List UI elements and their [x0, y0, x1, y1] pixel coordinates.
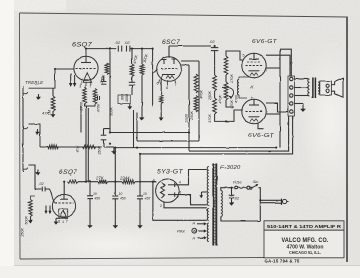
junction dot [54, 68, 56, 70]
V5 plate wire [266, 103, 288, 112]
heater arrow 3 [197, 236, 207, 239]
V2 plate bus [78, 181, 98, 183]
grid1 feed wire [226, 51, 243, 60]
cap .005-4000 unit [129, 77, 135, 96]
rail x189 [188, 65, 190, 151]
speaker cone [331, 78, 343, 97]
bus L4 [140, 116, 293, 154]
paper bottom strip [0, 266, 360, 278]
svg-text:450: 450 [95, 197, 101, 201]
V5 cathode stub [258, 124, 264, 129]
tube V6 5Y3 envelope [156, 179, 179, 202]
PT primary [221, 191, 223, 217]
rail x110 [109, 49, 111, 129]
label 10/450 b [119, 192, 126, 201]
svg-text:1500: 1500 [185, 113, 189, 122]
voice coil dot b [326, 89, 329, 92]
V1 cathode triangle [83, 73, 91, 83]
svg-text:8: 8 [166, 86, 168, 90]
PT 5V winding [207, 209, 208, 221]
V2 ground stub [54, 218, 60, 225]
junction dot [85, 48, 87, 50]
V4 plate wire [266, 55, 290, 76]
tube V2 6SQ7 envelope [52, 194, 75, 217]
switch [250, 184, 258, 189]
pi lower join [226, 100, 234, 107]
svg-text:.02: .02 [234, 197, 240, 201]
strip to OT wire 2 [295, 87, 309, 89]
tube V3 6SC7 envelope [157, 57, 182, 82]
svg-text:Pilot: Pilot [177, 228, 185, 233]
filter cap 3 [137, 196, 143, 229]
V2 plate riser [64, 182, 67, 195]
V2 plate [60, 195, 68, 199]
svg-text:10: 10 [93, 192, 97, 196]
tube V4 6V6 envelope [242, 53, 266, 77]
resistor 300K mid [140, 49, 144, 75]
svg-text:500K: 500K [25, 215, 29, 224]
V3 plate riser [168, 46, 170, 57]
resistor 470K mid [130, 49, 134, 77]
bus L3 field coil lead [115, 147, 276, 149]
V2 grid cap .02 [29, 165, 46, 191]
wire 6SC7 plate to cap [169, 45, 211, 47]
crossover hop wire [222, 87, 234, 99]
resistor 2244 [122, 180, 135, 184]
mix wire [40, 146, 102, 148]
svg-text:3: 3 [79, 84, 81, 88]
svg-text:GA-15 794 & 75: GA-15 794 & 75 [265, 258, 300, 263]
junction dot [214, 45, 216, 47]
junction dot [225, 121, 227, 123]
svg-text:H: H [193, 237, 196, 241]
junction dot [109, 132, 111, 134]
svg-text:6V6-GT: 6V6-GT [248, 133, 274, 139]
junction dot [85, 181, 87, 183]
svg-text:2244: 2244 [119, 175, 130, 180]
svg-text:.02: .02 [124, 40, 130, 45]
junction dot [139, 181, 141, 183]
filter cap 2 [112, 196, 118, 229]
tube V1 6SQ7 envelope [74, 56, 98, 80]
V3 plate2 wire [181, 64, 189, 66]
V4 heater zig [250, 73, 258, 76]
junction dot [89, 181, 91, 183]
line bypass cap .02 [229, 188, 235, 206]
svg-text:500K: 500K [110, 107, 114, 116]
svg-text:470K: 470K [97, 103, 101, 112]
pot ground [28, 217, 33, 224]
V4 screen stub [266, 67, 280, 69]
V6 plate4 wire [175, 170, 207, 185]
power cord [260, 200, 281, 202]
junction dot [152, 181, 154, 183]
V2 cathode triangle [60, 210, 66, 217]
svg-text:CHICAGO 51, ILL.: CHICAGO 51, ILL. [289, 250, 321, 255]
title block main box [264, 230, 344, 258]
svg-text:F-3020: F-3020 [221, 165, 241, 171]
svg-text:4: 4 [179, 180, 181, 184]
resistor 47K a [48, 145, 59, 149]
svg-text:.02: .02 [115, 40, 121, 45]
svg-text:H: H [193, 222, 196, 226]
ground V3 cathode [159, 113, 164, 121]
svg-text:6: 6 [157, 82, 159, 86]
V1 plate [81, 56, 91, 62]
resistor 270K pi-3 [224, 56, 228, 75]
V2 cathode box [59, 209, 68, 218]
bus 27K to 2244 [108, 181, 123, 183]
svg-text:510-14RT & 14TD AMPLIF R: 510-14RT & 14TD AMPLIF R [267, 224, 342, 229]
V3 pin stubs [159, 80, 176, 86]
B+ rail pair to V2 plate [86, 106, 88, 183]
junction dot [152, 48, 154, 50]
svg-text:6SQ7: 6SQ7 [72, 41, 92, 48]
ground tone [104, 147, 117, 155]
V2 diode arrows [44, 206, 51, 215]
cap .1 on branch [101, 76, 106, 85]
jack chain wire [22, 97, 24, 162]
V6 plate6 wire [175, 195, 207, 205]
paper smudge bottom [20, 223, 200, 267]
strip lug 5 [290, 110, 293, 113]
resistor 250K V3 [194, 96, 198, 113]
svg-text:6V6-GT: 6V6-GT [252, 39, 277, 45]
strip to OT wire 1 [295, 78, 309, 80]
V5 grid dashed [246, 111, 263, 113]
primary to fuse wire [221, 188, 234, 191]
V3 plate 1 [162, 60, 167, 65]
svg-text:250K: 250K [98, 145, 102, 155]
pot top tie [31, 196, 36, 200]
junction dot [114, 181, 116, 183]
B+ top wire to strip [280, 49, 291, 76]
junction dot [63, 181, 65, 183]
ground at J2 [35, 129, 40, 135]
resistor 250K pi-1 [213, 56, 217, 91]
svg-text:6SC7: 6SC7 [162, 39, 180, 46]
network box [118, 95, 130, 104]
junction dot [109, 143, 111, 145]
bus L2 heater [137, 140, 199, 142]
resistor 27K [98, 180, 108, 184]
heater arrow 1 [197, 222, 207, 225]
paper smudge mid [110, 100, 290, 200]
junction dot [131, 48, 133, 50]
V3 heater zig [166, 76, 174, 79]
input jack J1 (treble) [23, 87, 28, 97]
plate load resistor 250K [105, 63, 109, 75]
svg-text:4700: 4700 [234, 94, 238, 103]
OT core bars [313, 78, 316, 99]
svg-text:6SQ7: 6SQ7 [59, 169, 77, 176]
svg-text:7: 7 [89, 84, 91, 88]
svg-text:VALCO MFG. CO.: VALCO MFG. CO. [282, 237, 329, 244]
label 10/450 a [93, 192, 100, 201]
svg-text:370K: 370K [208, 114, 212, 123]
svg-text:5: 5 [243, 54, 245, 58]
S-wire into 6SC7 grid [153, 69, 158, 72]
cap .02 to output grids [211, 46, 218, 56]
coupling cap C2 .02 [127, 46, 130, 52]
V3 grid2 wire upper [181, 60, 199, 62]
tone cap [101, 129, 107, 147]
junction dot [114, 147, 116, 149]
resistor 1MEG volume [51, 88, 55, 111]
junction dot [231, 187, 233, 189]
pilot lamp [192, 228, 197, 233]
svg-text:6: 6 [179, 190, 181, 194]
junction dot [139, 153, 141, 155]
svg-text:10: 10 [143, 192, 147, 196]
resistor 47K b [82, 145, 96, 149]
V3 grid dashed [161, 68, 178, 70]
svg-text:470K: 470K [199, 90, 203, 99]
svg-text:450: 450 [145, 197, 151, 201]
bus 2244 to rectifier [135, 181, 157, 183]
V3 plate 2 [172, 59, 177, 64]
svg-text:.02: .02 [39, 182, 45, 186]
terminal strip [288, 76, 295, 116]
strip lug 4 [290, 102, 293, 105]
screen rail [279, 49, 281, 147]
V5 plate [249, 99, 259, 105]
verticals below tone [134, 110, 138, 148]
V5 heater zig [250, 119, 258, 122]
title block header box [264, 221, 344, 230]
small cap at V1 cathode [98, 96, 100, 100]
V2 grid dashed [55, 202, 74, 204]
output transformer primary [308, 79, 310, 96]
grid2 feed wire [215, 110, 243, 121]
V1 second resistor [93, 89, 97, 105]
V6 plate 6 [168, 192, 175, 196]
strip lug 3 [290, 94, 293, 97]
paper right edge dark line [346, 17, 348, 263]
svg-text:TREBLE: TREBLE [25, 80, 43, 85]
PT 6.3V winding [207, 223, 209, 242]
paper smudge top left [10, 4, 170, 56]
resistor 370K pi-2 [213, 91, 217, 114]
svg-text:27K: 27K [95, 175, 105, 180]
svg-text:450: 450 [120, 197, 126, 201]
svg-text:250K: 250K [190, 111, 194, 121]
filter cap 1 [87, 183, 93, 229]
switch to primary return [221, 188, 260, 221]
V6 plate 4 [168, 183, 175, 187]
PT core [212, 163, 217, 245]
svg-text:4: 4 [62, 220, 64, 224]
wire J2 to mixing network [29, 124, 41, 147]
V3 cathode resistor 1500 [159, 75, 163, 113]
svg-text:Fuse: Fuse [233, 180, 242, 185]
resistor 300K lower leg [141, 75, 143, 113]
ground at J3 [36, 170, 41, 176]
V2 grid S wire [45, 189, 55, 203]
paper top-left lighter corner [14, 0, 66, 11]
bus L3b [189, 116, 289, 151]
V3 cathode bar [162, 74, 175, 76]
fuse [235, 186, 250, 189]
voice coil dot a [326, 84, 329, 87]
coupling cap C1 .02 [118, 46, 126, 52]
V1 cathode resistor 2700 [83, 88, 87, 104]
V2 plate zigzag [68, 180, 79, 183]
coupling coil K [237, 80, 239, 96]
junction dot [275, 147, 277, 149]
junction dot [188, 132, 190, 134]
OT secondary [318, 82, 320, 94]
svg-text:7: 7 [266, 69, 268, 73]
V4 screen dashed [247, 61, 261, 63]
svg-text:.02: .02 [209, 39, 215, 44]
V1 plate riser [86, 49, 116, 57]
strip lug 1 [290, 77, 293, 80]
V4 cathode bar [249, 70, 260, 72]
junction dot [259, 199, 261, 201]
V6 filament zig [161, 183, 165, 199]
speaker housing [320, 81, 332, 95]
input jack J2 [23, 122, 28, 132]
V4 grid dashed [246, 65, 263, 67]
svg-text:470K: 470K [219, 94, 223, 103]
wire caps to rail [130, 48, 153, 50]
svg-text:¼: ¼ [101, 77, 104, 81]
heater arrow 2 [199, 229, 207, 232]
paper smudge right [300, 40, 360, 200]
ground mid left [140, 113, 145, 121]
bus B down to filter [114, 148, 116, 196]
strip lug 2 [290, 86, 293, 89]
volume pot V2 [29, 200, 33, 217]
svg-text:3: 3 [58, 220, 60, 224]
bus A jog [104, 129, 111, 133]
paper right edge shade [348, 17, 360, 262]
coil top tie [239, 77, 250, 80]
svg-text:2: 2 [160, 204, 162, 208]
wire J1 tip to grid node [29, 69, 75, 88]
V6 filament 5V wire a [153, 182, 207, 221]
svg-text:7: 7 [175, 83, 177, 87]
cathode bottoms join [85, 104, 96, 107]
svg-text:47K: 47K [42, 111, 49, 116]
V1 grid (dashed) [76, 68, 97, 70]
V6 filament 5V wire b [164, 202, 207, 208]
V5 screen stub [266, 113, 280, 115]
V1 pin stubs [81, 81, 91, 86]
svg-text:10: 10 [119, 192, 123, 196]
V1 diode plates [69, 74, 77, 88]
tube V5 6V6 envelope [242, 99, 266, 123]
PT HV center tap ground [199, 192, 207, 199]
svg-text:Sw.: Sw. [253, 179, 260, 184]
svg-text:250K: 250K [208, 91, 212, 101]
paper bottom edge line [14, 265, 360, 267]
bus to tone network [80, 106, 82, 133]
power plug [282, 199, 289, 205]
resistor 470K pi-4 [224, 75, 228, 100]
V5 cathode bar [249, 116, 260, 118]
ground below 1MEG [51, 111, 56, 118]
svg-text:7: 7 [66, 220, 68, 224]
ground at J1 [36, 94, 41, 100]
bus D down to filter [139, 154, 141, 196]
rail x199 [198, 61, 200, 141]
junction dot [136, 147, 138, 149]
svg-text:5Y3-GT: 5Y3-GT [157, 169, 184, 176]
junction dot [141, 48, 143, 50]
bus A [110, 132, 190, 134]
V4 plate [249, 53, 259, 59]
ground below network box [127, 104, 132, 110]
strip to OT wire 3 [295, 95, 309, 97]
PT HV secondary [207, 167, 209, 206]
svg-text:250K: 250K [21, 227, 25, 237]
rail down to 6SC7 grid [152, 49, 154, 106]
junction dot [109, 48, 111, 50]
label 10/450 c [143, 192, 150, 201]
svg-text:270K: 270K [230, 74, 234, 84]
resistor 470K V3 [194, 74, 198, 93]
coil bottom tie [239, 95, 247, 98]
strip ground wire [295, 104, 306, 113]
input jack J3 [23, 162, 28, 172]
svg-text:K: K [251, 85, 254, 90]
